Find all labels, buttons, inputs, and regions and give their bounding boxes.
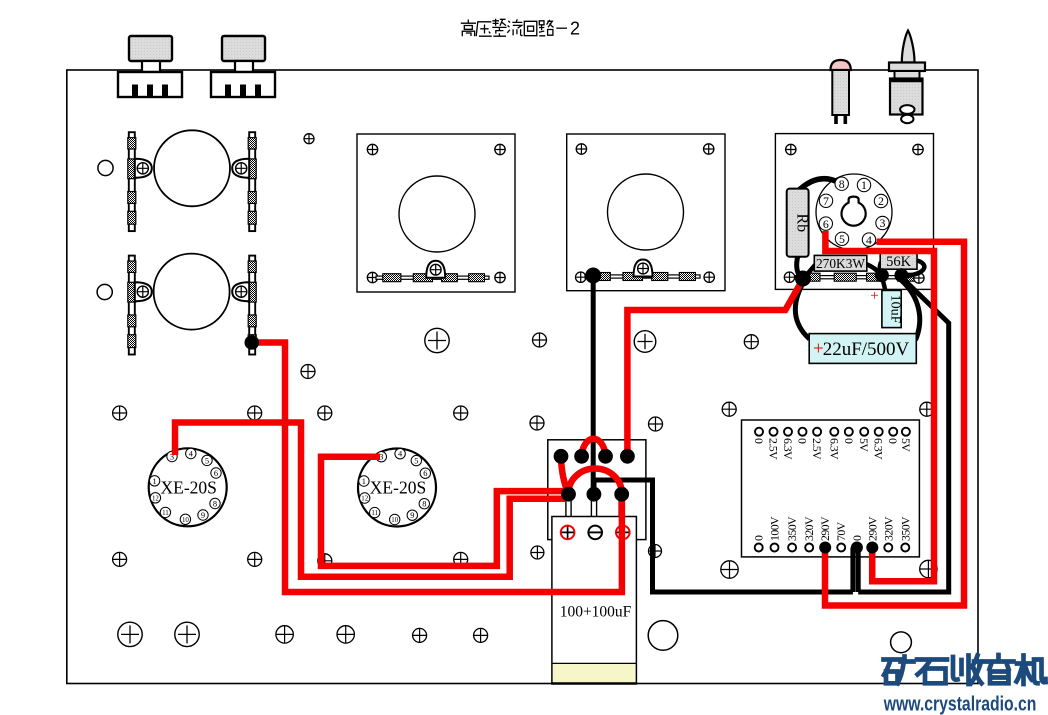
board tap 350V (bottom) (788, 544, 796, 552)
lead node J1 to 22uF left (black) (795, 283, 809, 339)
can + terminal (right) (616, 526, 630, 540)
socket V1 pin 7 (819, 194, 832, 207)
svg-text:10: 10 (391, 517, 398, 524)
socket V1 pin 8 (835, 177, 848, 190)
svg-text:3: 3 (880, 216, 886, 230)
svg-text:5: 5 (205, 456, 209, 465)
svg-text:100+100uF: 100+100uF (560, 604, 632, 621)
svg-text:0: 0 (752, 438, 766, 444)
chassis bolt (634, 331, 656, 353)
svg-text:6.3V: 6.3V (827, 438, 841, 460)
T1 terminal strip (376, 276, 489, 279)
wire: T2 strip junction to terminal-block negative (black) (591, 276, 596, 495)
svg-text:290V: 290V (865, 516, 879, 541)
lead 56K right to node J3 (black) (903, 261, 924, 277)
XE-20S #2 pin 3 (376, 452, 386, 462)
transformer T2 cover (567, 134, 725, 291)
svg-text:4: 4 (866, 233, 872, 247)
svg-text:6: 6 (423, 469, 427, 478)
svg-text:12: 12 (152, 495, 159, 502)
tube socket XE-20S #2 (358, 449, 436, 527)
board tap 0 (top) (799, 428, 807, 436)
svg-text:9: 9 (410, 511, 414, 520)
XE-20S #2 pin 4 (395, 449, 405, 459)
chassis screw (474, 628, 488, 642)
XE-20S #2 pin 8 (419, 499, 429, 509)
terminal (top row) (554, 449, 569, 464)
svg-text:+: + (870, 288, 878, 304)
svg-text:2: 2 (570, 19, 580, 39)
svg-text:www.crystalradio.cn: www.crystalradio.cn (883, 693, 1036, 715)
chassis screw (649, 545, 662, 558)
svg-text:7: 7 (823, 194, 829, 208)
board tap terminal (wired) (819, 542, 831, 554)
board tap 100V (bottom) (771, 544, 779, 552)
svg-text:2: 2 (878, 194, 884, 208)
chassis screw (301, 365, 315, 379)
node J1 (795, 271, 811, 287)
board tap terminal (wired) (866, 542, 878, 554)
chassis screw (248, 406, 262, 420)
board tap 0 (top) (845, 428, 853, 436)
red jumper arc top row (582, 439, 606, 456)
socket V1 pin 6 (819, 217, 832, 230)
XE-20S #1 pin 3 (167, 451, 177, 461)
chassis screw (920, 560, 937, 577)
svg-text:10: 10 (182, 517, 189, 524)
capacitor 22uF/500V (809, 334, 916, 364)
svg-text:XE-20S: XE-20S (161, 477, 217, 497)
board tap 0 (bottom) (755, 544, 763, 552)
octal tube socket V1 (816, 174, 892, 250)
svg-text:2.5V: 2.5V (767, 438, 781, 460)
svg-text:11: 11 (371, 510, 378, 517)
socket V1 pin 1 (857, 178, 870, 191)
terminal stem (591, 500, 596, 517)
chassis screw (413, 628, 427, 642)
lead node J2 to 10uF (black) (882, 277, 886, 291)
red wire: tube pin4 to 290V tap (wire D) (825, 242, 964, 606)
svg-text:8: 8 (213, 500, 217, 509)
XE-20S #2 pin 12 (360, 493, 370, 503)
red wire: clamp junction to capacitor + (wire C) (251, 343, 622, 593)
chassis screw (113, 552, 127, 566)
resistor Rb (787, 189, 809, 257)
rectifier tube mounting plate (775, 134, 933, 290)
chassis screw (454, 406, 468, 420)
chassis screw (276, 626, 293, 643)
svg-text:0: 0 (850, 535, 864, 541)
svg-text:270K3W: 270K3W (816, 256, 865, 271)
svg-text:12: 12 (361, 495, 368, 502)
neon indicator lamp NE1 (831, 60, 851, 70)
chassis hole (left, upper) (98, 160, 113, 175)
board tap 6.3V (top) (830, 428, 838, 436)
red wire: socket2 pin3 to terminal block + (wire B) (321, 457, 566, 566)
chassis screw (304, 134, 314, 144)
chassis screw (531, 546, 544, 559)
junction node on T2 strip (585, 268, 601, 284)
svg-text:320V: 320V (881, 516, 895, 541)
chassis screw (530, 416, 544, 430)
can - terminal (middle) (588, 526, 602, 540)
board tap 2.5V (top) (770, 428, 778, 436)
board tap 6.3V (top) (875, 428, 883, 436)
T2 lug (634, 260, 653, 277)
socket keyhole (841, 197, 865, 226)
tube socket plate strip (792, 276, 922, 279)
svg-text:11: 11 (162, 510, 169, 517)
node J3 (894, 268, 908, 282)
Rb lower lead to node J1 (black) (797, 255, 802, 278)
chassis hole (left, lower) (97, 284, 112, 299)
svg-text:22uF/500V: 22uF/500V (823, 339, 910, 360)
board tap 6.3V (top) (784, 428, 792, 436)
chassis screw (337, 626, 354, 643)
tube socket XE-20S #1 (149, 448, 227, 526)
chassis screw (248, 552, 262, 566)
board tap 5V (top) (902, 428, 910, 436)
board tap 0 (top) (755, 428, 763, 436)
chassis bolt (425, 328, 449, 352)
terminal stem (566, 500, 571, 517)
socket V1 pin 2 (874, 194, 887, 207)
wire: terminal block to ground lug 0 (black) (594, 480, 853, 592)
capacitor terminal mounting plate (548, 440, 646, 540)
svg-text:2.5V: 2.5V (810, 438, 824, 460)
svg-text:70V: 70V (834, 521, 848, 541)
power transformer terminal board (742, 420, 920, 557)
chassis screw (318, 406, 332, 420)
svg-text:6.3V: 6.3V (872, 438, 886, 460)
svg-text:0: 0 (886, 438, 900, 444)
chassis screw (744, 335, 758, 349)
resistor 270K 3W (814, 255, 867, 271)
XE-20S #2 pin 6 (420, 468, 430, 478)
XE-20S #1 pin 6 (211, 468, 221, 478)
XE-20S #1 pin 12 (150, 493, 160, 503)
socket V1 pin 4 (862, 233, 875, 246)
chassis hole bottom right (891, 632, 912, 653)
chassis screw (113, 406, 127, 420)
toggle switch S1 (902, 31, 915, 63)
svg-text:320V: 320V (802, 516, 816, 541)
terminal (mid row) (561, 487, 576, 502)
terminal (mid row) (587, 487, 602, 502)
XE-20S #1 pin 5 (202, 455, 212, 465)
watermark 矿石收音机 (884, 655, 1046, 684)
filter capacitor C-a (top view) with clamps (154, 130, 230, 206)
resistor 56K (880, 253, 917, 269)
terminal stem (619, 500, 624, 517)
XE-20S #1 pin 11 (160, 507, 170, 517)
chassis screw (721, 561, 738, 578)
svg-text:0: 0 (842, 438, 856, 444)
chassis screw (920, 402, 934, 416)
chassis plate outline (67, 70, 978, 684)
red wire: tube pin6 to 290V tap (wire E) (825, 231, 934, 581)
chassis screw (318, 554, 332, 568)
capacitor 10uF (882, 290, 901, 327)
T2 terminal strip (585, 275, 700, 278)
wire: terminal board 0 stubs (black) (853, 548, 858, 593)
chassis hole near can (648, 621, 678, 651)
svg-text:1: 1 (362, 477, 366, 486)
Rb resistor lead to pin 8 (black) (797, 179, 840, 192)
board tap 0 (top) (889, 428, 897, 436)
junction node on clamp strip (245, 335, 260, 350)
svg-text:Rb: Rb (794, 213, 811, 232)
XE-20S #1 pin 4 (186, 448, 196, 458)
red link top row to middle row (561, 457, 569, 494)
socket V1 pin 3 (876, 216, 889, 229)
red wire: terminal block top to node J1 (627, 279, 803, 457)
socket V1 pin 5 (835, 232, 848, 245)
transformer T1 cover (357, 134, 515, 292)
board tap terminal (wired) (851, 542, 863, 554)
XE-20S #2 pin 9 (407, 510, 417, 520)
chassis screw (722, 402, 736, 416)
XE-20S #1 pin 10 (180, 514, 190, 524)
svg-text:5V: 5V (899, 438, 913, 452)
XE-20S #1 pin 8 (210, 498, 220, 508)
electrolytic can 100+100uF (552, 517, 637, 685)
XE-20S #2 pin 10 (390, 514, 400, 524)
svg-text:8: 8 (422, 500, 426, 509)
chassis screw (649, 417, 663, 431)
svg-text:6: 6 (823, 217, 829, 231)
svg-text:10uF: 10uF (888, 295, 903, 324)
power plug J1 (top-left) (129, 36, 172, 61)
can + terminal (left) (561, 526, 575, 540)
terminal (top row) (620, 449, 635, 464)
chassis bolt (118, 622, 142, 646)
board tap 320V (bottom) (884, 544, 892, 552)
title 高压整流回路－2 (461, 19, 567, 36)
svg-text:8: 8 (839, 177, 845, 191)
chassis bolt (175, 622, 199, 646)
XE-20S #2 pin 5 (411, 455, 421, 465)
svg-text:350V: 350V (785, 516, 799, 541)
T1 lug (426, 261, 445, 278)
terminal (mid row) (614, 487, 629, 502)
chassis screw (454, 552, 468, 566)
board tap 2.5V (top) (813, 428, 821, 436)
XE-20S #2 pin 1 (359, 476, 369, 486)
svg-text:5V: 5V (857, 438, 871, 452)
svg-text:1: 1 (861, 178, 867, 192)
svg-text:5: 5 (839, 232, 845, 246)
svg-text:6: 6 (214, 469, 218, 478)
filter capacitor C-b (top view) with clamps (154, 254, 230, 330)
XE-20S #1 pin 9 (198, 510, 208, 520)
svg-text:9: 9 (201, 511, 205, 520)
svg-text:100V: 100V (768, 516, 782, 541)
red wire: socket1 pin3 to terminal block + (wire A) (175, 423, 566, 577)
svg-text:1: 1 (153, 477, 157, 486)
XE-20S #2 pin 11 (370, 507, 380, 517)
svg-text:0: 0 (752, 535, 766, 541)
lead 270K to node J2 (black) (866, 264, 881, 275)
XE-20S #1 pin 1 (149, 476, 159, 486)
svg-text:XE-20S: XE-20S (370, 478, 426, 498)
board tap 320V (bottom) (805, 544, 813, 552)
svg-text:6.3V: 6.3V (781, 438, 795, 460)
board tap 70V (bottom) (837, 544, 845, 552)
svg-text:290V: 290V (818, 516, 832, 541)
terminal (top row) (574, 449, 589, 464)
terminal (top row) (598, 449, 613, 464)
svg-text:56K: 56K (886, 254, 912, 270)
svg-text:5: 5 (414, 457, 418, 466)
lead node J3 to 22uF right (black) (901, 280, 920, 340)
lead J1 to 270K resistor (black) (803, 265, 815, 279)
chassis screw (533, 333, 547, 347)
board tap 350V (bottom) (901, 544, 909, 552)
svg-text:350V: 350V (898, 516, 912, 541)
power plug J2 (222, 36, 265, 61)
red jumper arc middle row (569, 469, 622, 494)
board tap 5V (top) (860, 428, 868, 436)
wire: socket J3 node to terminal board 0 (black) (858, 277, 949, 592)
node J2 (875, 268, 889, 282)
svg-text:0: 0 (796, 438, 810, 444)
lead 56K to node J2 (black) (880, 262, 882, 275)
